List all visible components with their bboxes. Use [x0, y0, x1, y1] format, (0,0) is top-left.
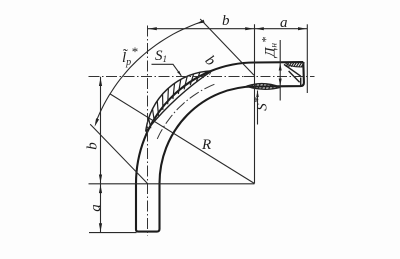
- svg-text:R: R: [201, 137, 211, 153]
- svg-text:b: b: [85, 142, 101, 150]
- svg-text:a: a: [280, 15, 288, 31]
- svg-text:b: b: [222, 13, 230, 29]
- svg-text:a: a: [88, 204, 104, 212]
